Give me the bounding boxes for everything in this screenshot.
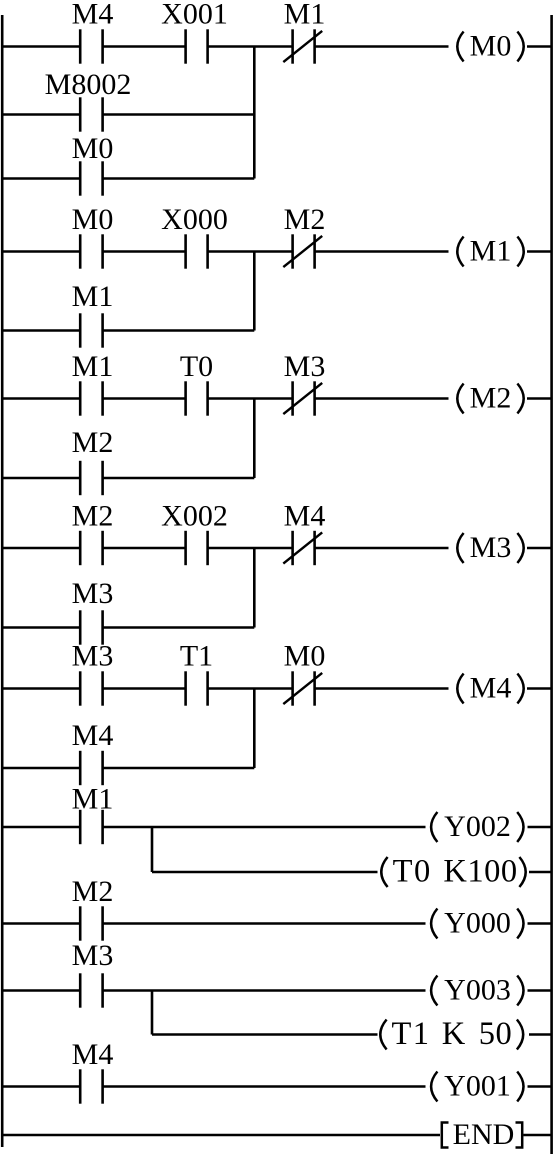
wire rung 5 segment rail to contact M3	[2, 687, 80, 690]
wire rung 7 rail to contact M2	[2, 922, 80, 925]
svg-text:M4: M4	[72, 719, 114, 752]
wire rung 2 segment M0 to X000	[103, 250, 186, 253]
wire OR-branch rail to contact M1	[2, 329, 80, 332]
svg-text:Y002: Y002	[444, 810, 511, 843]
wire END to right rail	[524, 1134, 552, 1137]
contact M2 (NO) parallel branch	[79, 461, 82, 495]
wire rung 3 segment NC to coil M2	[315, 397, 449, 400]
svg-text:T0: T0	[393, 854, 432, 890]
svg-text:END: END	[453, 1118, 515, 1151]
svg-text:M8002: M8002	[45, 68, 132, 101]
svg-text:X001: X001	[161, 0, 228, 31]
wire rung 3 segment M1 to T0	[103, 397, 186, 400]
svg-text:M1: M1	[470, 235, 512, 268]
junction vertical rung 3	[253, 399, 256, 479]
wire rung 2 segment rail to contact M0	[2, 250, 80, 253]
svg-text:M3: M3	[470, 531, 512, 564]
coil Y002	[431, 812, 437, 842]
contact X000 (NO)	[184, 234, 187, 268]
svg-text:Y003: Y003	[444, 974, 511, 1007]
svg-text:Y000: Y000	[444, 907, 511, 940]
contact X002 (NO)	[184, 531, 187, 565]
branch junction vertical rung 6	[151, 827, 154, 872]
contact M1 (NO) parallel branch	[79, 313, 82, 347]
wire rung 3 coil to right rail	[527, 397, 552, 400]
wire rung 4 coil to right rail	[527, 547, 552, 550]
svg-text:M3: M3	[72, 939, 114, 972]
wire OR-branch rail to contact M2	[2, 477, 80, 480]
wire rung 6 contact to coil Y002	[103, 826, 426, 829]
contact T0 (NO)	[184, 381, 187, 415]
wire timer coil to right rail	[529, 871, 552, 874]
junction vertical rung 2	[253, 252, 256, 331]
svg-text:M4: M4	[72, 1038, 114, 1071]
wire rung 5 segment NC to coil M4	[315, 687, 449, 690]
coil M1	[457, 237, 463, 267]
contact M3 (NC)	[291, 381, 294, 415]
contact M4 (NO) parallel branch	[79, 751, 82, 785]
wire OR-branch M8002 to junction	[103, 113, 255, 116]
wire OR-branch M0 to junction	[103, 177, 255, 180]
contact M2 (NC)	[291, 234, 294, 268]
junction vertical rung 4	[253, 548, 256, 628]
wire rung 7 contact to coil Y000	[103, 922, 426, 925]
junction vertical rung 5	[253, 689, 256, 769]
coil Y001	[431, 1072, 437, 1102]
contact M4 (NO)	[79, 29, 82, 63]
wire rung 1 segment rail to contact M4	[2, 45, 80, 48]
svg-text:M3: M3	[72, 577, 114, 610]
svg-text:X002: X002	[161, 500, 228, 533]
svg-text:K100: K100	[443, 854, 517, 890]
timer coil T0 K100	[381, 857, 387, 887]
wire rung 4 segment NC to coil M3	[315, 547, 449, 550]
contact M1 (NO)	[79, 381, 82, 415]
wire rung 8 contact to coil Y003	[103, 989, 426, 992]
wire rung 9 contact to coil Y001	[103, 1085, 426, 1088]
svg-text:M1: M1	[72, 350, 114, 383]
contact M4 (NO)	[79, 1069, 82, 1103]
wire rung 2 coil to right rail	[527, 250, 552, 253]
right power rail	[550, 15, 553, 1154]
wire rung 6 coil to right rail	[528, 826, 552, 829]
coil M2	[457, 384, 463, 414]
wire OR-branch rail to contact M8002	[2, 113, 80, 116]
wire rung 1 segment NC to coil M0	[315, 45, 449, 48]
coil M4	[457, 674, 463, 704]
wire OR-branch M4 to junction	[103, 767, 255, 770]
coil Y003	[431, 976, 437, 1006]
svg-text:M0: M0	[284, 640, 326, 673]
svg-text:K: K	[442, 1016, 466, 1052]
svg-text:Y001: Y001	[444, 1070, 511, 1103]
coil M3	[457, 533, 463, 563]
wire rung 8 rail to contact M3	[2, 989, 80, 992]
wire rung 9 rail to contact M4	[2, 1085, 80, 1088]
contact M3 (NO)	[79, 973, 82, 1007]
wire branch to timer coil	[152, 871, 378, 874]
wire rung 2 segment X000 to NC contact M2	[208, 250, 293, 253]
contact M2 (NO)	[79, 906, 82, 940]
svg-text:M2: M2	[72, 500, 114, 533]
svg-text:M4: M4	[284, 500, 326, 533]
wire rung 1 segment X001 to NC contact M1	[208, 45, 293, 48]
wire rung 4 segment X002 to NC contact M4	[208, 547, 293, 550]
contact M0 (NC)	[291, 671, 294, 705]
contact M0 (NO)	[79, 234, 82, 268]
svg-text:M0: M0	[72, 132, 114, 165]
contact M1 (NO)	[79, 810, 82, 844]
contact M3 (NO)	[79, 671, 82, 705]
wire rung 4 segment M2 to X002	[103, 547, 186, 550]
svg-text:M1: M1	[72, 280, 114, 313]
wire rung 5 coil to right rail	[527, 687, 552, 690]
wire END rung rail to END instruction	[2, 1134, 440, 1137]
wire rung 1 segment M4 to X001	[103, 45, 186, 48]
svg-text:M3: M3	[72, 640, 114, 673]
svg-text:50: 50	[479, 1016, 513, 1052]
timer coil T1 K50	[380, 1020, 386, 1050]
svg-text:M2: M2	[470, 382, 512, 415]
svg-text:X000: X000	[161, 203, 228, 236]
contact M3 (NO) parallel branch	[79, 610, 82, 644]
wire rung 3 segment rail to contact M1	[2, 397, 80, 400]
svg-text:M4: M4	[72, 0, 114, 31]
coil Y000	[431, 909, 437, 939]
wire rung 2 segment NC to coil M1	[315, 250, 449, 253]
wire OR-branch rail to contact M4	[2, 767, 80, 770]
svg-text:M2: M2	[72, 426, 114, 459]
contact M2 (NO)	[79, 531, 82, 565]
wire rung 8 coil to right rail	[528, 989, 552, 992]
junction vertical rung 1	[253, 47, 256, 179]
svg-text:M3: M3	[284, 350, 326, 383]
wire OR-branch rail to contact M0	[2, 177, 80, 180]
svg-text:T1: T1	[180, 640, 213, 673]
contact T1 (NO)	[184, 671, 187, 705]
wire rung 5 segment T1 to NC contact M0	[208, 687, 293, 690]
wire OR-branch M2 to junction	[103, 477, 255, 480]
wire rung 4 segment rail to contact M2	[2, 547, 80, 550]
contact M1 (NC)	[291, 29, 294, 63]
svg-text:M0: M0	[72, 203, 114, 236]
wire rung 1 coil to right rail	[527, 45, 552, 48]
left power rail	[1, 15, 4, 1147]
svg-text:M1: M1	[72, 783, 114, 816]
contact M0 (NO) parallel branch	[79, 161, 82, 195]
svg-text:T1: T1	[391, 1016, 430, 1052]
svg-text:M2: M2	[72, 875, 114, 908]
contact M8002 (NO) parallel branch	[79, 97, 82, 131]
wire rung 6 rail to contact M1	[2, 826, 80, 829]
wire rung 7 coil to right rail	[528, 922, 552, 925]
svg-text:M0: M0	[470, 30, 512, 63]
wire rung 9 coil to right rail	[528, 1085, 552, 1088]
svg-text:M1: M1	[284, 0, 326, 31]
coil M0	[457, 32, 463, 62]
END instruction [END]	[442, 1123, 449, 1148]
wire OR-branch rail to contact M3	[2, 626, 80, 629]
wire rung 3 segment T0 to NC contact M3	[208, 397, 293, 400]
contact M4 (NC)	[291, 531, 294, 565]
branch junction vertical rung 8	[151, 991, 154, 1035]
wire branch to timer coil	[152, 1033, 378, 1036]
wire OR-branch M3 to junction	[103, 626, 255, 629]
wire rung 5 segment M3 to T1	[103, 687, 186, 690]
svg-text:M4: M4	[470, 672, 512, 705]
wire timer coil to right rail	[529, 1033, 552, 1036]
svg-text:M2: M2	[284, 203, 326, 236]
contact X001 (NO)	[184, 29, 187, 63]
svg-text:T0: T0	[180, 350, 213, 383]
wire OR-branch M1 to junction	[103, 329, 255, 332]
